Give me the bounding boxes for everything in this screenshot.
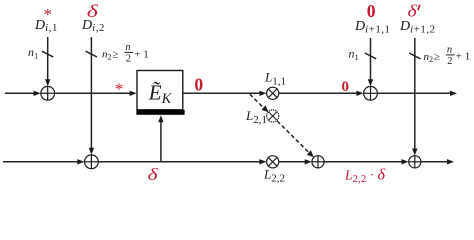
xor XOR3 <box>364 86 378 100</box>
svg-text:n: n <box>447 45 452 56</box>
arrowhead bottom output <box>447 159 454 164</box>
svg-text:L1,1: L1,1 <box>264 69 286 87</box>
wire Di+1,2 drop <box>414 38 416 149</box>
arrowhead Di+1,2 into XOR5 <box>412 149 417 156</box>
label n2 >= n/2+1 right <box>424 45 471 67</box>
arrowhead into XOR1 <box>34 91 41 96</box>
multiplier L11 <box>267 87 279 99</box>
arrowhead top output <box>450 91 457 96</box>
block EK <box>136 71 184 115</box>
xor XOR1 <box>41 86 55 100</box>
svg-text:δ: δ <box>408 2 418 20</box>
svg-text:Di+1,1: Di+1,1 <box>354 19 390 35</box>
dashed branch wire lower segment <box>277 121 310 153</box>
wire bottom input segment <box>3 161 78 163</box>
arrowhead into L22 <box>259 159 266 164</box>
wire L22 to XOR4 <box>279 161 306 163</box>
prime mark of delta <box>418 5 420 11</box>
arrowhead into XOR5 <box>402 159 409 164</box>
svg-text:0: 0 <box>194 75 203 95</box>
svg-text:2: 2 <box>447 56 452 67</box>
bus slash n1 left <box>42 51 53 57</box>
svg-text:n1: n1 <box>28 45 38 60</box>
arrowhead into EK <box>130 91 137 96</box>
bus slash n1 right <box>365 53 376 59</box>
svg-text:*: * <box>115 80 124 99</box>
arrowhead delta into EK <box>158 115 163 122</box>
arrowhead Di1 into XOR1 <box>45 79 50 86</box>
wire tweak delta into EK <box>160 122 162 162</box>
wire XOR4 to XOR5 <box>324 161 402 163</box>
wire L11 to XOR3 <box>279 92 357 94</box>
wire bottom output segment <box>421 161 448 163</box>
xor XOR5 <box>409 156 421 168</box>
arrowhead Di2 into XOR2 <box>89 148 94 155</box>
svg-text:+ 1: + 1 <box>456 51 470 63</box>
wire Di+1,1 drop <box>370 38 372 80</box>
svg-text:L2,2 · δ: L2,2 · δ <box>344 166 386 185</box>
xor XOR4 <box>312 156 324 168</box>
svg-text:δ: δ <box>148 166 159 185</box>
multiplier L22 <box>267 156 279 168</box>
arrowhead dashed into L21 <box>262 105 269 112</box>
wire XOR1 to EK block <box>55 92 130 94</box>
arrowhead into L11 <box>259 91 266 96</box>
xor XOR2 <box>85 155 99 169</box>
svg-text:n2 ≥: n2 ≥ <box>102 49 118 62</box>
svg-text:n: n <box>125 42 130 53</box>
arrowhead dashed into XOR4 <box>307 150 314 157</box>
dashed branch wire upper segment <box>250 94 265 109</box>
wire Di1 drop <box>47 37 49 80</box>
svg-text:0: 0 <box>342 79 350 95</box>
svg-text:L2,2: L2,2 <box>263 167 285 185</box>
svg-text:2: 2 <box>126 54 131 65</box>
arrowhead Di+1,1 into XOR3 <box>368 79 373 86</box>
multiplier L21 ghost <box>267 110 279 122</box>
arrowhead into XOR2 <box>77 159 84 164</box>
svg-text:Di+1,2: Di+1,2 <box>399 19 435 35</box>
svg-text:n1: n1 <box>349 47 359 62</box>
wire EK block to L11 multiplier <box>183 92 260 94</box>
arrowhead into XOR4 <box>305 159 312 164</box>
wire top output segment <box>377 92 450 94</box>
wire XOR2 to L22 multiplier <box>98 161 260 163</box>
wire top input segment <box>5 92 39 94</box>
bus slash n2 right <box>409 53 420 59</box>
svg-text:0: 0 <box>367 1 376 21</box>
bus slash n2 left <box>86 51 97 57</box>
arrowhead into XOR3 <box>356 91 363 96</box>
wire Di2 drop <box>90 37 92 149</box>
svg-text:+ 1: + 1 <box>134 49 148 61</box>
label n2 >= n/2+1 left <box>102 42 149 64</box>
svg-text:L2,1: L2,1 <box>245 108 267 126</box>
svg-text:n2 ≥: n2 ≥ <box>424 51 440 64</box>
